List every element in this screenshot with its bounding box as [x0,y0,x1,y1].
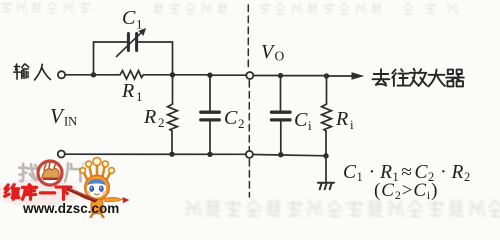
ground [325,156,327,183]
wire C2 branch top [209,75,211,111]
watermark mascot pencil [65,187,98,202]
node junction Ci bottom [278,152,283,157]
wire Ci junction to Ri junction [281,75,327,77]
node VO (open circle) [246,72,253,79]
node junction left of R1 [91,72,96,77]
label 去往放大器 (to amplifier) [373,69,464,87]
svg-text:www.dzsc.com: www.dzsc.com [22,201,119,216]
watermark halo [0,179,80,207]
wire R2 branch bottom [171,131,173,155]
resistor R2 [168,104,178,131]
wire R1 junction to C2 junction [173,74,211,76]
watermark mascot crown [84,165,110,179]
wire Ri branch bottom [325,131,327,156]
node junction C2 bottom [208,152,213,157]
wire R2 branch top [172,75,174,104]
svg-text:R: R [335,108,348,130]
wire C1 branch left leg [94,42,127,75]
background bleed-through text top row [1,2,458,14]
svg-text:i: i [350,117,354,132]
svg-text:1: 1 [136,89,143,104]
wire C1 branch right leg [139,42,173,75]
watermark logo: registered mark [82,163,88,169]
node bottom-left terminal (open circle) [58,151,65,158]
svg-text:IN: IN [64,115,77,129]
label 输入 (input) [14,64,51,80]
wire VO to Ci junction [254,75,281,77]
resistor Ri [322,104,332,131]
watermark mascot head [85,175,109,199]
node junction Ri bottom / ground stem [324,153,329,158]
wire Ri branch top [326,76,328,104]
watermark logo: gray 找 character [19,164,37,181]
wire Ci branch top [280,76,282,111]
svg-text:O: O [275,49,285,64]
svg-text:C: C [294,109,308,131]
node bottom terminal on dashed line (open circle) [246,151,253,158]
background bleed-through text bottom row [185,201,500,218]
watermark logo: red ring with chip hand [38,161,62,185]
node junction C2 top [208,73,213,78]
wire C2 junction to VO node [210,74,246,76]
capacitor C1 (variable) [127,34,130,51]
node junction R2 bottom [170,152,175,157]
node junction right of R1 [170,72,175,77]
resistor R1 [106,71,173,79]
svg-text:V: V [50,104,65,128]
dashed separation line [247,5,249,70]
watermark text 维库一下 [5,185,71,200]
node junction Ci top [278,73,283,78]
node junction Ri top [324,74,329,79]
wire input to R1 [65,74,106,76]
svg-text:2: 2 [238,116,245,131]
wire to amplifier with arrow [327,75,353,77]
svg-text:C: C [122,7,136,29]
wire bottom rail [65,153,246,155]
wire C2 branch bottom [209,121,211,154]
svg-text:2: 2 [158,115,165,130]
svg-text:R: R [143,106,156,128]
svg-text:1: 1 [136,17,143,32]
capacitor Ci [272,111,291,114]
svg-text:i: i [308,118,312,133]
watermark mascot body and arms [91,200,103,214]
node input terminal [58,71,65,78]
svg-text:C: C [224,107,238,129]
wire Ci branch bottom [280,121,282,155]
watermark logo: gray 片 character [65,163,81,181]
svg-text:R: R [121,80,134,102]
capacitor C2 [201,111,220,114]
